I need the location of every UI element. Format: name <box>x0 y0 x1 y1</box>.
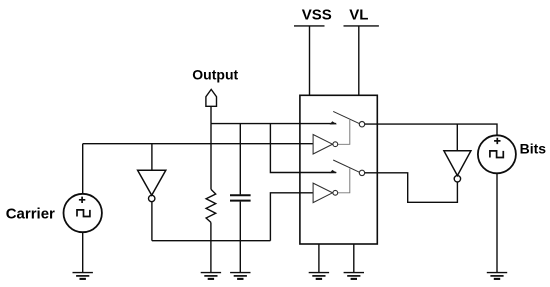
wire box bottom pin 2 <box>353 244 355 273</box>
wire right bus to right inverter input <box>456 124 458 151</box>
square-wave glyph (Bits) <box>490 151 503 158</box>
ground (box pin 2) <box>344 272 364 274</box>
switch module box U1 <box>300 95 377 244</box>
ground (carrier) <box>73 272 93 274</box>
svg-text:Output: Output <box>192 67 238 83</box>
wire output pin to top bus <box>210 106 212 123</box>
control wire S1 <box>338 120 350 144</box>
switch S2 input arrowhead <box>330 170 337 173</box>
ground (resistor) <box>201 272 221 274</box>
capacitor C <box>230 194 251 196</box>
wire carrier source to carrier bus <box>82 144 84 194</box>
output pin symbol <box>206 89 217 106</box>
svg-text:VSS: VSS <box>302 6 332 23</box>
inverter (left buffer) <box>138 170 166 195</box>
bubble (inverter U2) <box>333 142 338 147</box>
switch S1 input arrowhead <box>330 121 337 124</box>
switch S2 arm <box>333 160 359 172</box>
VL rail terminal bar <box>344 25 379 27</box>
control wire S2 <box>338 169 350 193</box>
wire Bits source to ground <box>496 173 498 272</box>
ground (Bits) <box>487 272 507 274</box>
switch S2 contact <box>359 170 364 175</box>
voltage source Bits <box>478 135 516 173</box>
bubble (right inverter U4) <box>454 176 460 182</box>
wire carrier bus to left inverter input <box>151 144 153 171</box>
wire output node down to capacitor <box>239 124 241 195</box>
wire box bottom pin 1 <box>318 244 320 273</box>
wire top bus down to switch 2 input <box>270 124 336 173</box>
wire left inverter output to bottom bus <box>151 202 153 241</box>
inverter U3 (in box, bottom) <box>313 183 332 203</box>
wire bottom bus up to inverter 2 input <box>270 193 313 241</box>
wire bottom bus <box>152 240 271 242</box>
voltage source Carrier <box>63 194 101 232</box>
bubble (inverter U3) <box>333 190 338 195</box>
VSS rail terminal bar <box>294 25 325 27</box>
plus sign (Bits) <box>494 138 500 144</box>
svg-text:Carrier: Carrier <box>6 206 55 223</box>
square-wave glyph (Carrier) <box>77 210 90 217</box>
plus sign (Carrier) <box>79 197 85 203</box>
wire top bus (output node) <box>211 123 336 125</box>
wire carrier source to ground <box>82 232 84 272</box>
ground (capacitor) <box>230 272 250 274</box>
switch S1 arm <box>333 111 359 123</box>
svg-text:VL: VL <box>349 6 368 23</box>
wire VSS rail to box top <box>309 26 311 95</box>
svg-text:Bits: Bits <box>520 141 547 157</box>
bubble (left inverter) <box>149 195 155 201</box>
resistor R <box>206 189 216 222</box>
wire VL rail to box top <box>358 26 360 95</box>
wire resistor to ground <box>210 222 212 272</box>
switch S1 contact <box>359 122 364 127</box>
inverter U2 (in box, top) <box>313 135 332 155</box>
wire carrier bus <box>83 143 313 145</box>
wire switch 1 output to Bits source <box>365 124 497 135</box>
inverter U4 (right) <box>444 151 471 176</box>
ground (box pin 1) <box>309 272 329 274</box>
wire capacitor to ground <box>239 202 241 273</box>
wire right inverter output to switch 2 contact <box>365 173 458 203</box>
wire output node down to resistor <box>210 124 212 190</box>
